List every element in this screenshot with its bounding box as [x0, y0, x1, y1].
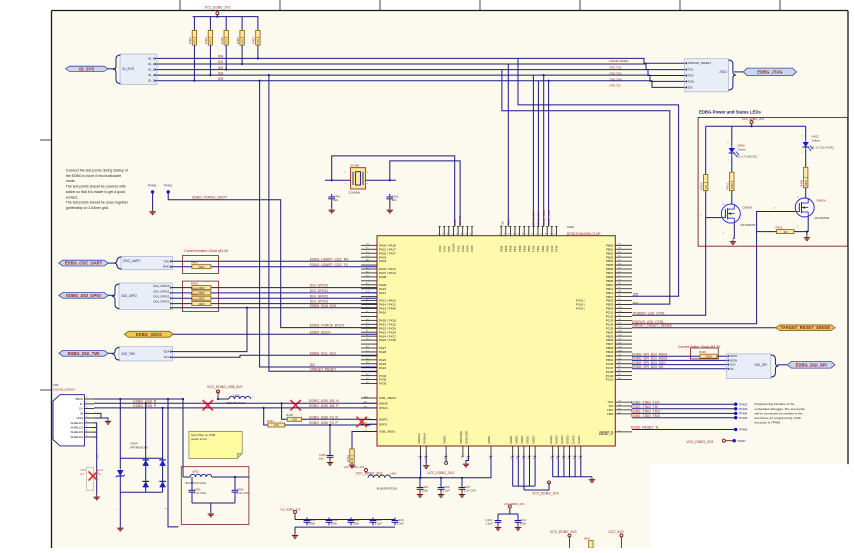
ground C402 [387, 202, 393, 213]
ground C407 [459, 492, 465, 497]
svg-text:EDBG_JTAG_TCK: EDBG_JTAG_TCK [631, 400, 660, 404]
diode D400 [729, 144, 758, 159]
wire R409 to Q400A [805, 188, 807, 198]
net label EDBG_USB_N [133, 399, 156, 403]
svg-text:100n: 100n [353, 521, 360, 525]
svg-text:330R: 330R [804, 180, 808, 186]
capacitor C415 [370, 518, 383, 526]
svg-text:VDDCORE: VDDCORE [459, 431, 463, 444]
svg-text:PC03: PC03 [461, 245, 465, 252]
diode D404 label [130, 441, 147, 449]
box current limiter 3 [690, 348, 718, 359]
svg-text:R412: R412 [776, 225, 783, 229]
power VCC_EDBG_3V3 c410 [504, 502, 525, 510]
svg-text:1 uF C0G: 1 uF C0G [464, 488, 476, 492]
resistor R412 [776, 225, 795, 233]
svg-text:100n: 100n [309, 521, 316, 525]
svg-text:2N7002DW: 2N7002DW [814, 216, 829, 220]
net label TARGET_RESET [609, 59, 629, 63]
wire LED rail [706, 125, 806, 127]
svg-text:solder so that it is easier to: solder so that it is easier to get a goo… [66, 190, 125, 194]
wire JTAG TCK drop [532, 75, 534, 226]
svg-text:TMS: TMS [607, 412, 613, 416]
U400 refdes [567, 225, 575, 229]
port EDBG_JTAG [743, 68, 796, 76]
frame zone ticks [40, 0, 780, 390]
wire filter in [183, 476, 190, 478]
svg-text:PA28: PA28 [379, 350, 386, 354]
port EDBG_ADC0 [124, 331, 173, 337]
svg-text:PC10: PC10 [606, 378, 614, 382]
wire D404 top rail [120, 457, 162, 459]
wire EDBG_JTAG_TDI [632, 408, 736, 410]
svg-text:EDBG_FORCE_BOOT: EDBG_FORCE_BOOT [310, 324, 345, 328]
svg-text:SHIELD1: SHIELD1 [70, 421, 83, 425]
wire SPI MOSI [632, 359, 727, 361]
diode D404 d1 [142, 460, 149, 466]
power VCC LED box [742, 117, 764, 127]
svg-text:PB19: PB19 [522, 245, 526, 252]
svg-text:JTAG_TCK: JTAG_TCK [532, 209, 536, 226]
svg-text:TP400: TP400 [148, 184, 157, 188]
wire D404 col2 [162, 408, 164, 492]
svg-text:EDBG_DGI_SPI: EDBG_DGI_SPI [796, 362, 827, 367]
port EDBG_DGI_GPIO [59, 293, 108, 299]
net label ID5 [218, 77, 223, 81]
wire CDC port-harness [108, 262, 116, 264]
svg-text:JTAG: JTAG [719, 70, 727, 74]
net label ID2 [218, 66, 223, 70]
test point TP405 [734, 416, 748, 420]
svg-text:330R: 330R [198, 265, 204, 269]
net label STATUS_LED_CTRL [632, 320, 664, 324]
capacitor C411 [515, 518, 527, 526]
svg-text:TP405: TP405 [739, 416, 748, 420]
net label EDBG_USART_CDC_TX [310, 263, 349, 267]
svg-text:R422: R422 [346, 455, 350, 462]
capacitor C403 [189, 487, 206, 495]
wire R406 to ID bus [225, 45, 227, 71]
svg-text:22R: 22R [274, 423, 279, 427]
svg-text:2.2uF: 2.2uF [486, 521, 493, 525]
wire vddana rail [420, 456, 422, 479]
svg-text:EDBG_CDC_UART: EDBG_CDC_UART [65, 261, 103, 266]
svg-text:JTAG_TDO: JTAG_TDO [547, 209, 551, 226]
ground C410 [495, 525, 501, 530]
svg-text:GND: GND [76, 416, 84, 420]
wire DGI_GPIO2 [172, 297, 377, 299]
svg-text:330R: 330R [705, 354, 711, 358]
net label JTAG_TMS [609, 77, 622, 81]
box current limiter 1 [182, 256, 218, 274]
power VCC_EDBG_3V3 row [280, 508, 301, 516]
svg-text:TARGET_RESET: TARGET_RESET [310, 367, 337, 371]
wire R404 to ID bus [193, 45, 195, 82]
wire TWI SDA [172, 307, 248, 352]
svg-text:ID_3: ID_3 [148, 73, 155, 77]
ground shields [94, 495, 100, 500]
connector J401 labels [53, 383, 76, 391]
svg-text:1M: 1M [704, 185, 708, 189]
svg-text:VCC_EDBG_3V3: VCC_EDBG_3V3 [344, 465, 365, 469]
svg-text:XOUT0: XOUT0 [452, 243, 456, 252]
svg-text:VCC_EDBG_3V3: VCC_EDBG_3V3 [686, 440, 713, 444]
resistor R422 v [346, 449, 354, 463]
ground J401 gnd [105, 419, 111, 424]
svg-text:will be connected by needles i: will be connected by needles in the [755, 411, 803, 415]
svg-text:SHIELD2: SHIELD2 [70, 426, 83, 430]
wire D404 vbus return [167, 398, 179, 527]
power VCC_EDBG_3V3 br [550, 530, 577, 539]
svg-text:VDDIO: VDDIO [531, 436, 535, 444]
wire DGI_GPIO1 [172, 292, 377, 294]
svg-text:Current limiters 10mA @3.3V: Current limiters 10mA @3.3V [184, 249, 229, 253]
ground C409 [327, 460, 333, 465]
U400 left pins [361, 243, 396, 385]
svg-text:TDI: TDI [688, 85, 693, 89]
svg-text:DGI_GPIO0: DGI_GPIO0 [153, 284, 170, 288]
svg-text:JTAG_TDI: JTAG_TDI [537, 211, 541, 226]
svg-text:D-: D- [80, 402, 83, 406]
svg-text:XC400: XC400 [350, 163, 360, 167]
resistor R424 [584, 538, 593, 549]
inductor L401 [368, 472, 398, 491]
svg-text:R413: R413 [191, 292, 198, 296]
svg-text:PB14: PB14 [499, 245, 503, 252]
wire TP400 to gnd [152, 193, 154, 210]
svg-text:GNDIO: GNDIO [577, 435, 581, 444]
svg-text:SHIELD4: SHIELD4 [70, 435, 83, 439]
net label EDBG_SPI_DGI_SS [632, 365, 664, 369]
svg-text:PB18: PB18 [518, 245, 522, 252]
svg-text:m: m [165, 508, 167, 510]
ground Q400B [730, 240, 736, 245]
resistor R408 [191, 287, 211, 295]
svg-text:DGI_GPIO2: DGI_GPIO2 [310, 294, 328, 298]
svg-text:PC01: PC01 [442, 245, 446, 252]
wire TDO drop2 [507, 64, 509, 227]
test point TP404 [734, 412, 748, 416]
power VCC_5V0 br [608, 530, 623, 539]
resistor R413 [191, 292, 211, 300]
svg-text:1M: 1M [98, 473, 101, 476]
capacitor C401 [328, 194, 340, 202]
svg-text:J401: J401 [53, 383, 59, 387]
wire cap stems [419, 477, 463, 485]
svg-text:power input.: power input. [191, 437, 208, 441]
resistor R421 [267, 419, 285, 427]
svg-text:EDBG_JTAG_TDI: EDBG_JTAG_TDI [631, 405, 658, 409]
wire C409 top [329, 424, 331, 453]
svg-text:EDBG_USB_P: EDBG_USB_P [133, 404, 156, 408]
wire EDBG_ADC0 [173, 333, 377, 335]
wire SPI MISO [632, 355, 727, 357]
svg-text:PA08: PA08 [379, 275, 386, 279]
svg-text:PC00: PC00 [438, 245, 442, 252]
svg-text:R401: R401 [191, 261, 198, 265]
wire GPIO port-harness [108, 294, 114, 296]
wire shields [94, 423, 97, 495]
wire R412 [757, 231, 808, 233]
svg-text:DPHS: DPHS [379, 406, 387, 410]
svg-text:TDO: TDO [507, 219, 511, 226]
svg-text:SDA: SDA [163, 350, 169, 354]
capacitor C402 [386, 194, 398, 202]
net label XIN0 XOUT0 [453, 215, 462, 226]
harness ID_SYS [113, 54, 157, 85]
svg-text:PX13: PX13 [550, 245, 554, 252]
svg-text:test point is TP400.: test point is TP400. [755, 421, 782, 425]
capacitor C404 [417, 485, 429, 493]
net label EDBG_JTAG_TDO [631, 410, 660, 414]
wire usb_vbus ic [0, 0, 1, 1]
svg-text:TARGET_RESET: TARGET_RESET [688, 61, 712, 65]
white cover region [651, 464, 855, 548]
wire R407 to ID bus [257, 45, 259, 60]
net label EDBG_JTAG_TCK [631, 400, 660, 404]
svg-text:R421: R421 [267, 419, 274, 423]
svg-text:330R: 330R [730, 183, 734, 189]
wire TARGET_RESET vertical [268, 74, 377, 371]
svg-text:PB20: PB20 [527, 245, 531, 252]
svg-text:RXD: RXD [163, 265, 170, 269]
svg-text:PB16: PB16 [509, 245, 513, 252]
wire Q400A source [807, 217, 808, 236]
svg-text:DGI_SPI: DGI_SPI [755, 363, 768, 367]
harness DGI_SPI [727, 354, 779, 379]
test point TP406 [734, 428, 748, 432]
pin numbers D402 [802, 136, 804, 155]
wire EDBG_USB_P [94, 407, 377, 409]
wire c410 rail [498, 510, 518, 520]
net label ID4 [218, 55, 223, 59]
svg-text:VDDIO: VDDIO [509, 436, 513, 444]
svg-text:R405: R405 [236, 37, 240, 44]
connector J401 [53, 395, 94, 446]
wire br1 [569, 539, 571, 549]
svg-text:VBUS: VBUS [75, 397, 83, 401]
note EDBG Power and Status LEDs title [699, 110, 761, 115]
svg-text:1M: 1M [350, 458, 354, 462]
svg-text:GNDIO: GNDIO [555, 435, 559, 444]
svg-text:PX36: PX36 [379, 382, 387, 386]
svg-text:VCC_EDBG_3V3: VCC_EDBG_3V3 [356, 472, 383, 476]
wire CDC RXD [172, 266, 377, 268]
svg-text:ID4: ID4 [218, 55, 223, 59]
net label EDBG_USB_M3_P [309, 404, 339, 408]
wire CDC TXD [172, 260, 377, 262]
pin numbers D400 [728, 143, 730, 162]
svg-text:mode.: mode. [66, 179, 76, 183]
svg-text:PC05: PC05 [470, 245, 474, 252]
diode D404 d4 [159, 481, 166, 487]
svg-text:EDBG_USB_F3_N: EDBG_USB_F3_N [309, 415, 338, 419]
svg-text:R410: R410 [700, 182, 704, 189]
svg-text:The test points should be cove: The test points should be covered with [66, 185, 126, 189]
svg-text:EDBG Power and Status LEDs: EDBG Power and Status LEDs [699, 110, 761, 115]
wire SPI SS [632, 368, 727, 370]
box current limiter 2 [182, 281, 218, 311]
net label EDBG_USB_P [133, 404, 156, 408]
wire pull-up top rail [193, 16, 259, 31]
svg-text:2.2uF: 2.2uF [375, 521, 382, 525]
wire bus to JTAG harness [502, 58, 685, 87]
net label EDBG_JTAG_TMS [631, 414, 661, 418]
resistor R410 [700, 175, 708, 191]
ground R422 [349, 463, 355, 468]
note current limiter 3 label [678, 345, 721, 349]
svg-text:VCC_EDBG_3V3: VCC_EDBG_3V3 [504, 502, 525, 506]
svg-text:KL-17-215YGC: KL-17-215YGC [738, 155, 758, 159]
wire VBUS cont [218, 398, 229, 400]
svg-text:100n: 100n [331, 521, 338, 525]
svg-text:100n: 100n [520, 521, 527, 525]
svg-text:R420: R420 [286, 413, 293, 417]
wire D404 zener column [119, 399, 121, 526]
svg-text:R414: R414 [191, 297, 198, 301]
svg-text:embedded debugger. The test po: embedded debugger. The test points [755, 407, 806, 411]
junction L401 caps [0, 0, 1, 1]
U400 bottom pins [417, 430, 582, 458]
port TARGET_RESET_SENSE [776, 325, 835, 331]
svg-text:Q400A: Q400A [817, 198, 826, 202]
diode D404 zener [116, 470, 125, 477]
resistor R409 [800, 167, 808, 187]
test point TP400 [148, 184, 157, 194]
resistor R404 [188, 30, 196, 45]
svg-text:Q400B: Q400B [743, 205, 752, 209]
capacitor C407 [459, 485, 476, 493]
svg-text:GNDIO: GNDIO [571, 435, 575, 444]
wire vddcore gnd [466, 456, 469, 462]
power VCC_EDBG_USB_5V0 [207, 385, 243, 399]
net label EDBG_USB_F3_N [309, 415, 338, 419]
svg-text:22p: 22p [392, 198, 397, 202]
resistor R405 [236, 30, 244, 45]
svg-text:VDDIO: VDDIO [526, 436, 530, 444]
wire D402 column [805, 126, 807, 139]
svg-text:1 uF C0G: 1 uF C0G [194, 491, 206, 495]
wire R411 to Q400B [731, 191, 733, 205]
wire xtal top rail [332, 156, 455, 227]
wire EDBG_USB_N [94, 402, 377, 404]
note bootloader instructions [66, 169, 129, 210]
wire STATUS_LED_CTRL [632, 212, 795, 324]
power VCC_EDBG_3V3 vddio [524, 481, 559, 496]
capacitor C409 [319, 453, 333, 461]
note current limiters 1 label [184, 249, 229, 253]
net label ID5 [633, 293, 638, 297]
resistor R414 [191, 297, 211, 305]
net label DGI_GPIO0 [310, 284, 328, 288]
net label DGI_GPIO1 [310, 289, 328, 293]
wire D400 to R411 [731, 156, 733, 172]
net label EDBG_SPI_DGI_SCK [632, 361, 666, 365]
svg-text:XOUT0: XOUT0 [458, 215, 462, 226]
wire EDBG_JTAG_TMS [632, 417, 736, 419]
svg-text:R408: R408 [191, 287, 198, 291]
svg-text:PA11: PA11 [379, 291, 386, 295]
power VCC_EDBG_3V3 vddio1 [427, 461, 454, 475]
test point TP402 [734, 402, 748, 406]
svg-text:BLM18PG471SN1: BLM18PG471SN1 [377, 488, 398, 491]
power VCC_EDBG_3V3 vddana [344, 465, 368, 473]
capacitor C406 [438, 485, 451, 493]
svg-text:JTAG TCK: JTAG TCK [609, 66, 622, 70]
wire caps drops [0, 0, 1, 1]
wire vddio5 rail [513, 456, 535, 490]
ground GNDCORE [463, 462, 469, 467]
net label EDBG_USB_M3_N [309, 399, 339, 403]
U400 part number [567, 232, 601, 236]
svg-text:PB15: PB15 [504, 245, 508, 252]
svg-text:47K: 47K [224, 39, 228, 44]
U400 lower-right JTAG pins [599, 400, 632, 434]
svg-text:GNDIO: GNDIO [549, 435, 553, 444]
svg-text:R423: R423 [98, 469, 104, 472]
net label EDBG_RESET_N [631, 426, 659, 430]
wire DGI_GPIO3 [172, 303, 377, 305]
net label EDBG_FORCE_BOOT (left) [192, 196, 227, 200]
svg-text:47K: 47K [256, 39, 260, 44]
net label TARGET_RESET [310, 367, 337, 371]
svg-text:JTAG_TMS: JTAG_TMS [542, 210, 546, 226]
svg-text:R406: R406 [220, 37, 224, 44]
svg-text:PA04: PA04 [379, 259, 386, 263]
svg-text:VCC_EDBG_USB_5V0: VCC_EDBG_USB_5V0 [207, 385, 243, 389]
svg-text:10104111-0001LF: 10104111-0001LF [53, 387, 76, 391]
svg-text:R403: R403 [204, 37, 208, 44]
wire filter gnd rail [192, 495, 235, 512]
svg-text:2N7002DW: 2N7002DW [740, 223, 755, 227]
svg-text:EDBG_USB_F3_P: EDBG_USB_F3_P [309, 421, 338, 425]
component C408 R423 (DNF) [80, 454, 104, 491]
wire TWI port-harness [108, 352, 114, 354]
svg-text:L401: L401 [390, 472, 397, 476]
svg-text:ID_1: ID_1 [148, 62, 155, 66]
svg-text:DGI_GPIO1: DGI_GPIO1 [310, 289, 328, 293]
svg-text:XIN0: XIN0 [447, 246, 451, 252]
svg-text:R404: R404 [188, 37, 192, 44]
svg-text:PA16: PA16 [379, 311, 386, 315]
svg-text:DGI_GPIO3: DGI_GPIO3 [153, 300, 170, 304]
wire ID5 route right [518, 58, 679, 296]
svg-text:100n: 100n [422, 488, 429, 492]
svg-text:VDDANA: VDDANA [417, 433, 421, 444]
wire ID0 vertical [259, 80, 378, 367]
U400 top pins [438, 227, 559, 253]
resistor R403 [204, 30, 212, 45]
svg-text:EDBG_SDA_DGI: EDBG_SDA_DGI [310, 304, 336, 308]
svg-text:ID3: ID3 [218, 71, 223, 75]
svg-text:AT32UC3A4256-C1UR: AT32UC3A4256-C1UR [567, 232, 601, 236]
net label EDBG_SDA_DGI [310, 304, 336, 308]
net label EDBG_USB_F3_P [309, 421, 338, 425]
svg-text:PX19 /: PX19 / [576, 307, 585, 311]
svg-text:PA31: PA31 [379, 366, 386, 370]
net label JTAG_TCK [609, 66, 622, 70]
svg-text:VDDIO: VDDIO [442, 436, 446, 444]
svg-text:1M: 1M [783, 230, 787, 234]
svg-text:the EDBG to force it into boot: the EDBG to force it into bootloader [66, 174, 122, 178]
svg-text:TCK: TCK [688, 68, 694, 72]
transistor Q400B [721, 204, 755, 227]
net label JTAG_TDO [609, 72, 622, 76]
pin numbers Q400B [701, 204, 726, 235]
svg-text:R424: R424 [584, 538, 590, 541]
power VCC_EDBG_3V3 (pull-ups) [204, 6, 230, 17]
harness DGI_GPIO [112, 283, 173, 310]
